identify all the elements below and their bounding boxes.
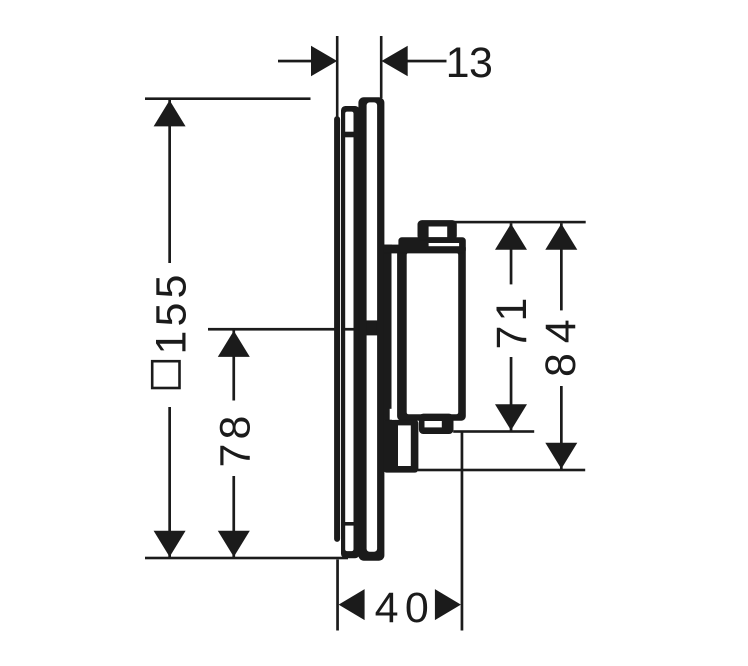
- dim 84 arrow down: [545, 443, 577, 469]
- dim 13 arrow left: [311, 46, 337, 76]
- collar sliver: [429, 243, 460, 246]
- dim 71 line upper: [510, 223, 513, 284]
- valve body: [398, 244, 466, 420]
- svg-text:1: 1: [446, 39, 470, 87]
- dim 155 top extension: [145, 97, 311, 100]
- block notch: [390, 409, 395, 420]
- dim 78 center extension line: [208, 328, 336, 331]
- dim 40 extension right: [461, 432, 464, 631]
- svg-text:4: 4: [537, 319, 585, 343]
- carrier center band: [367, 321, 378, 335]
- dim 78 line lower: [232, 476, 235, 557]
- carrier plate outer: [359, 98, 384, 561]
- dim 78 line upper: [232, 331, 235, 401]
- dim 13 extension line right: [380, 36, 383, 98]
- trim plate slot: [345, 112, 353, 551]
- collar tab: [384, 245, 400, 253]
- knob: [418, 221, 457, 241]
- dim 71 line lower: [510, 357, 513, 431]
- lower block interior: [398, 425, 411, 466]
- collar: [399, 238, 466, 253]
- dim 155 arrow up: [154, 100, 186, 126]
- svg-text:71: 71: [488, 293, 536, 349]
- dim 71 arrow down: [495, 404, 527, 430]
- dim 71 bottom extension: [453, 430, 534, 433]
- trim slot divider bottom: [345, 522, 353, 525]
- dim 13 extension line left: [336, 36, 339, 117]
- dim 84 bottom extension: [418, 469, 585, 472]
- dim 13 line left: [278, 60, 312, 63]
- dim 40 arrow left: [339, 589, 365, 620]
- dim 155 arrow down: [154, 531, 186, 557]
- dim 155 line upper: [168, 100, 171, 263]
- dim 40 arrow right: [435, 589, 461, 620]
- lower block: [384, 420, 419, 472]
- valve body interior: [407, 253, 459, 414]
- dim 78 arrow down: [218, 531, 250, 557]
- dim 155 label square: [152, 361, 179, 388]
- knob interior: [429, 227, 448, 238]
- svg-text:4: 4: [375, 584, 399, 632]
- dim 40 extension left: [336, 560, 339, 631]
- valve neck strip: [384, 245, 392, 421]
- dim 155 bottom extension: [145, 557, 348, 560]
- dim 71 84 top extension: [453, 221, 586, 224]
- svg-text:155: 155: [147, 270, 195, 354]
- dim 71 arrow up: [495, 224, 527, 250]
- svg-text:8: 8: [537, 353, 585, 377]
- stub interior: [425, 421, 442, 427]
- dim 13 arrow right: [382, 46, 408, 76]
- stub: [419, 414, 453, 434]
- svg-text:3: 3: [469, 39, 493, 87]
- dim 84 arrow up: [545, 224, 577, 250]
- svg-text:78: 78: [212, 411, 260, 467]
- trim plate outer: [341, 106, 359, 557]
- dim 13 line right: [404, 60, 447, 63]
- trim slot divider top: [345, 132, 353, 137]
- dim 78 arrow up: [218, 331, 250, 357]
- dim 84 line upper: [560, 223, 563, 310]
- carrier channel: [367, 102, 378, 551]
- neck sliver: [392, 253, 398, 409]
- dim 84 line lower: [560, 386, 563, 469]
- dim 155 line lower: [168, 407, 171, 557]
- dim 78 center extension in slot: [345, 328, 355, 331]
- plate front face bar: [335, 117, 340, 542]
- svg-text:0: 0: [405, 584, 429, 632]
